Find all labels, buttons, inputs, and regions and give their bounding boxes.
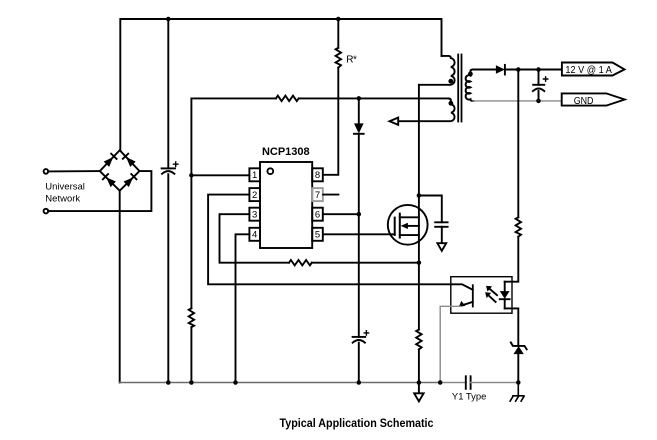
node secondary phase dot bbox=[468, 72, 473, 77]
node output diode junction bbox=[516, 67, 521, 72]
pin 3 box bbox=[249, 208, 260, 221]
wire upper input to bridge left vertex bbox=[48, 170, 100, 172]
svg-text:12 V @ 1 A: 12 V @ 1 A bbox=[565, 64, 612, 76]
svg-text:NCP1308: NCP1308 bbox=[262, 146, 310, 158]
label title bbox=[280, 418, 435, 430]
arrows LED light emission bbox=[485, 286, 497, 302]
transformer T1 secondary winding bbox=[466, 70, 496, 101]
pin 1 box bbox=[249, 168, 260, 181]
wire R* branch upper bbox=[337, 19, 339, 48]
svg-text:Y1 Type: Y1 Type bbox=[452, 392, 487, 403]
pin 7 box (NC, gray) bbox=[312, 188, 323, 201]
label Y1 Type bbox=[452, 392, 487, 403]
wire LED cathode to zener bbox=[505, 308, 519, 346]
svg-text:4: 4 bbox=[252, 230, 257, 241]
resistor feedback (vertical) bbox=[516, 217, 521, 236]
node rail sense bbox=[417, 380, 422, 385]
terminal lower input bbox=[44, 209, 49, 214]
node primary phase dot bbox=[448, 79, 453, 84]
node rail bulk cap bbox=[166, 380, 171, 385]
wire demag vertical upper bbox=[358, 98, 360, 123]
node aux phase dot bbox=[449, 101, 454, 106]
diode demag (pointing down) bbox=[354, 123, 364, 133]
capacitor snubber bbox=[435, 222, 447, 227]
wire Y1 link left (gray) bbox=[440, 382, 466, 384]
wire demag vertical to cap bbox=[358, 134, 360, 337]
wire drain vertical bbox=[418, 85, 420, 330]
wire output node bbox=[505, 69, 562, 71]
ground chassis symbol bbox=[510, 383, 525, 402]
svg-text:2: 2 bbox=[252, 190, 257, 201]
optocoupler transistor bbox=[459, 285, 473, 307]
wire snubber cap to ground arrow bbox=[441, 227, 443, 243]
wire pin 2 to optocoupler collector bbox=[208, 195, 473, 290]
node rail pin4 bbox=[233, 380, 238, 385]
node chassis junction bbox=[516, 380, 521, 385]
wire feedback resistor to opto LED bbox=[505, 237, 519, 282]
diode bridge top-right bbox=[123, 154, 136, 167]
node rail emitter bbox=[438, 380, 443, 385]
diode bridge bottom-left bbox=[103, 174, 116, 187]
wire sense resistor to rail bbox=[418, 349, 420, 382]
node demag junction bbox=[357, 96, 362, 101]
connector GND bbox=[562, 93, 625, 107]
node snubber junction bbox=[417, 193, 422, 198]
resistor sense (horizontal) bbox=[289, 260, 312, 265]
optocoupler LED bbox=[500, 282, 510, 309]
ground arrow primary (open triangle) bbox=[414, 383, 423, 402]
wire resistor to bottom rail bbox=[190, 327, 192, 382]
terminal upper input bbox=[44, 169, 49, 174]
transformer T1 aux winding bbox=[398, 98, 454, 121]
wire bulk cap branch lower bbox=[167, 174, 169, 382]
wire pin 6 to demag vertical bbox=[323, 213, 359, 215]
wire feedback vertical upper bbox=[517, 70, 519, 218]
svg-text:Network: Network bbox=[45, 193, 80, 204]
label Universal Network bbox=[45, 181, 85, 204]
bridge rectifier diamond bbox=[100, 150, 140, 191]
wire startup resistor to demag node bbox=[299, 97, 449, 99]
svg-text:R*: R* bbox=[346, 54, 357, 65]
wire left vertical x=191 bbox=[190, 98, 192, 308]
diode output rectifier bbox=[496, 65, 505, 75]
pin 6 box bbox=[312, 208, 323, 221]
wire sense resistor to MOSFET source bbox=[312, 262, 419, 264]
svg-text:7: 7 bbox=[315, 190, 320, 201]
transformer T1 primary winding bbox=[419, 56, 455, 85]
optocoupler U2 box bbox=[451, 277, 512, 314]
label NCP1308 bbox=[262, 146, 310, 158]
capacitor bulk C1 bbox=[162, 162, 178, 174]
svg-text:3: 3 bbox=[252, 210, 257, 221]
node output cap top junction bbox=[536, 67, 541, 72]
node pin1 junction bbox=[189, 173, 194, 178]
resistor sense-to-gnd (vertical) bbox=[416, 330, 421, 350]
wire pin 7 stub NC bbox=[323, 194, 338, 196]
diode bridge bottom-right bbox=[124, 174, 137, 187]
wire Vcc cap to bottom rail bbox=[358, 343, 360, 383]
wire pin 3 to sense line bbox=[220, 214, 290, 263]
wire lower input to bridge right vertex bbox=[48, 171, 151, 211]
diode zener bbox=[511, 342, 527, 382]
node top rail R* junction bbox=[336, 17, 341, 22]
pin1 indicator circle bbox=[267, 168, 273, 174]
label R* bbox=[346, 54, 357, 65]
capacitor Vcc C3 bbox=[353, 331, 369, 343]
wire top rail bbox=[120, 19, 441, 150]
node top rail bulk cap junction bbox=[166, 17, 171, 22]
capacitor Y1 bbox=[466, 376, 471, 389]
svg-text:8: 8 bbox=[315, 170, 320, 181]
pin 2 box bbox=[249, 188, 260, 201]
resistor startup (horizontal) bbox=[276, 96, 299, 101]
node rail Vcc cap bbox=[357, 380, 362, 385]
wire Y1 link right (gray) bbox=[471, 382, 519, 384]
pin 4 box bbox=[249, 228, 260, 241]
wire Vcc startup line y=98 bbox=[191, 97, 276, 99]
svg-text:1: 1 bbox=[252, 170, 257, 181]
svg-text:6: 6 bbox=[315, 210, 320, 221]
capacitor output C4 bbox=[533, 70, 548, 101]
resistor lower-left (vertical) bbox=[189, 308, 194, 327]
wire bridge bottom vertex to bottom rail bbox=[119, 191, 121, 383]
wire snubber branch bbox=[419, 196, 442, 223]
MOSFET Q1 bbox=[388, 205, 428, 245]
wire pin 5 to gate bbox=[323, 233, 395, 235]
node rail resistor bbox=[189, 380, 194, 385]
wire secondary return (gray) bbox=[473, 100, 562, 102]
diode bridge top-left bbox=[104, 154, 117, 167]
connector 12V output bbox=[562, 63, 625, 76]
wire pin 4 to bottom rail bbox=[236, 234, 250, 382]
wire opto emitter (gray) bbox=[440, 306, 460, 382]
svg-text:5: 5 bbox=[315, 230, 320, 241]
ground arrow snubber (open triangle) bbox=[437, 243, 446, 251]
svg-text:Typical Application Schematic: Typical Application Schematic bbox=[280, 418, 435, 430]
pin 8 box bbox=[312, 168, 323, 181]
node pin 6 junction bbox=[357, 212, 362, 217]
wire bulk cap branch upper bbox=[167, 19, 169, 168]
svg-text:GND: GND bbox=[574, 95, 594, 107]
node output cap bottom junction bbox=[536, 99, 541, 104]
svg-text:Universal: Universal bbox=[45, 181, 85, 192]
transformer T1 core bbox=[458, 55, 461, 122]
resistor R* bbox=[336, 48, 341, 68]
wire pin 1 bbox=[191, 174, 249, 176]
node sense junction bbox=[417, 260, 422, 265]
wire bottom rail (primary ground) bbox=[120, 382, 441, 384]
IC U1 NCP1308 body bbox=[260, 162, 312, 248]
pin 5 box bbox=[312, 228, 323, 241]
wire R* to pin 8 bbox=[323, 68, 338, 175]
arrow aux return (open, pointing left) bbox=[390, 118, 399, 125]
